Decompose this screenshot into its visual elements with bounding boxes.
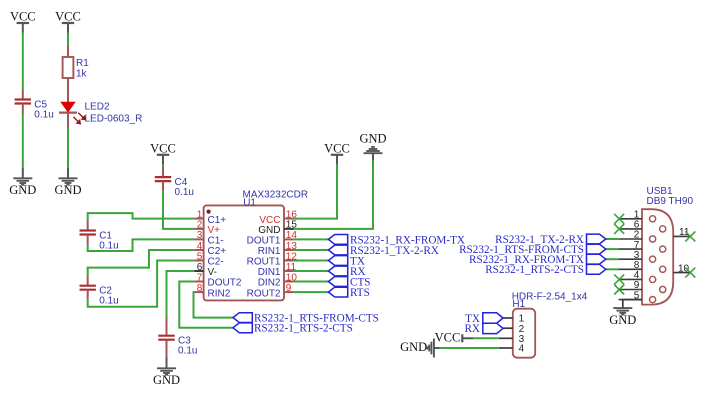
- svg-text:9: 9: [286, 283, 292, 294]
- op-amp U1 MAX3232CDR body: [204, 205, 284, 300]
- wire U1 pin 10 to flag (net CTS): [294, 281, 329, 283]
- svg-text:VCC: VCC: [150, 141, 176, 155]
- svg-text:GND: GND: [54, 183, 81, 197]
- capacitor C5 lead top: [22, 90, 24, 100]
- ground GND (U1 pin15): [359, 132, 386, 161]
- net flag RTS (U1 pin 9): [328, 287, 347, 297]
- LED LED2 arrows: [74, 113, 86, 124]
- svg-text:DOUT1: DOUT1: [247, 236, 281, 247]
- wire LED2 to GND: [67, 127, 69, 167]
- H1 pin 4 stub: [499, 347, 513, 349]
- wire U1 pin 12 to flag (net TX): [294, 260, 329, 262]
- USB1 pin 7 stub: [619, 248, 642, 250]
- USB1 pin 6 stub: [619, 228, 642, 230]
- svg-text:VCC: VCC: [435, 330, 461, 344]
- svg-text:H1: H1: [512, 299, 525, 310]
- wire U1 pin8 to flag (net RS232-1_RTS-FROM-CTS): [194, 292, 234, 318]
- svg-text:GND: GND: [400, 340, 427, 354]
- net flag TX (U1 pin 12): [328, 256, 347, 266]
- svg-text:RIN1: RIN1: [258, 246, 281, 257]
- net flag CTS (U1 pin 10): [328, 277, 347, 287]
- svg-text:ROUT2: ROUT2: [247, 288, 281, 299]
- U1 pin 8 stub: [194, 291, 203, 293]
- svg-text:GND: GND: [609, 313, 636, 327]
- wire U1 pin 9 to flag (net RTS): [294, 291, 329, 293]
- no-connect X USB1 pin 1: [614, 214, 624, 224]
- U1 pin-1 indicator dot: [207, 210, 211, 214]
- net flag RS232-1_RX-FROM-TX (USB1): [587, 254, 606, 264]
- svg-text:LED2: LED2: [85, 102, 110, 113]
- svg-text:V-: V-: [208, 267, 217, 278]
- wire U1 pin7 to flag (net RS232-1_RTS-2-CTS): [179, 282, 233, 328]
- capacitor C1 lead top: [87, 221, 89, 231]
- svg-text:4: 4: [519, 344, 525, 355]
- USB1 pin 2 stub: [619, 238, 642, 240]
- svg-text:DB9 TH90: DB9 TH90: [647, 196, 694, 207]
- svg-text:8: 8: [197, 283, 203, 294]
- USB1 pin 3 stub: [619, 258, 642, 260]
- svg-text:C1-: C1-: [208, 236, 224, 247]
- wire flag to USB1 (net RS232-1_RTS-2-CTS): [606, 268, 619, 270]
- wire C4 to U1 pin 2 (net V+): [163, 191, 194, 229]
- svg-text:RIN2: RIN2: [208, 288, 231, 299]
- capacitor C4: [155, 177, 171, 181]
- no-connect X USB1 pin 11: [685, 231, 695, 241]
- svg-text:R1: R1: [76, 58, 89, 69]
- wire U1 pin3 to C1 bottom (net C1-): [88, 239, 195, 251]
- U1 pin 12 stub: [284, 260, 294, 262]
- svg-text:RTS: RTS: [350, 287, 370, 299]
- U1 pin 16 stub: [284, 218, 294, 220]
- no-connect X USB1 pin 9: [614, 285, 624, 295]
- H1 pin 3 stub: [499, 337, 513, 339]
- wire U1 pin15 to GND: [294, 161, 373, 229]
- capacitor C5 lead bottom: [22, 104, 24, 114]
- USB1 pin 9 stub: [619, 289, 642, 291]
- net flag RX (U1 pin 11): [328, 266, 347, 276]
- ground GND (USB1 pin5): [613, 307, 632, 309]
- capacitor C4 lead top: [162, 167, 164, 177]
- svg-text:RS232-1_RTS-2-CTS: RS232-1_RTS-2-CTS: [254, 323, 353, 335]
- wire flag to USB1 (net RS232-1_RX-FROM-TX): [606, 258, 619, 260]
- net flag RS232-1_RTS-2-CTS (USB1): [587, 264, 606, 274]
- U1 pin 3 stub: [194, 238, 203, 240]
- resistor R1 lead top: [67, 46, 69, 57]
- svg-text:0.1u: 0.1u: [34, 110, 53, 121]
- svg-text:VCC: VCC: [324, 141, 350, 155]
- ground GND (LED branch): [54, 167, 81, 197]
- net flag RS232-1_TX-2-RX (USB1): [587, 234, 606, 244]
- svg-text:GND: GND: [153, 373, 180, 387]
- USB1 pin 5 stub: [619, 299, 642, 301]
- wire U1 pin6 to C3 top (net V-): [167, 271, 195, 319]
- svg-text:DIN1: DIN1: [258, 267, 281, 278]
- svg-text:ROUT1: ROUT1: [247, 257, 281, 268]
- U1 pin 4 stub: [194, 249, 203, 251]
- svg-text:C2-: C2-: [208, 257, 224, 268]
- USB1 pin 4 hole: [650, 276, 656, 282]
- net flag RS232-1_RX-FROM-TX (U1 pin 14): [328, 235, 347, 245]
- wire flag to USB1 (net RS232-1_RTS-FROM-CTS): [606, 248, 619, 250]
- capacitor C2 lead top: [87, 276, 89, 286]
- USB1 pin 7 hole: [660, 246, 666, 252]
- no-connect X USB1 pin 10: [685, 268, 695, 278]
- U1 pin 10 stub: [284, 281, 294, 283]
- USB1 pin 1 hole: [650, 216, 656, 222]
- no-connect X USB1 pin 4: [614, 274, 624, 284]
- svg-text:6: 6: [197, 262, 203, 273]
- capacitor C4 lead bottom: [162, 181, 164, 191]
- power flag VCC (net VCC, U1 pin16): [324, 141, 350, 164]
- net flag TX (H1 pin1): [483, 313, 503, 323]
- wire U1 pin 13 to flag (net RS232-1_TX-2-RX): [294, 249, 329, 251]
- USB1 pin 6 hole: [660, 226, 666, 232]
- svg-text:2: 2: [197, 220, 203, 231]
- connector H1 HDR-F-2.54_1x4 body: [513, 309, 535, 358]
- svg-text:LED-0603_R: LED-0603_R: [85, 114, 143, 125]
- net flag RS232-1_TX-2-RX (U1 pin 13): [328, 245, 347, 255]
- U1 pin 7 stub: [194, 281, 203, 283]
- wire VCC to R1: [67, 33, 69, 47]
- wire C5 to GND: [22, 114, 24, 168]
- net flag RX (H1 pin2): [483, 323, 503, 333]
- U1 pin 6 stub: [194, 270, 203, 272]
- U1 pin 9 stub: [284, 291, 294, 293]
- resistor R1: [63, 57, 74, 78]
- capacitor C1: [80, 231, 96, 235]
- U1 pin 15 stub: [284, 228, 294, 230]
- LED LED2: [61, 102, 75, 112]
- svg-text:GND: GND: [359, 132, 386, 146]
- svg-text:VCC: VCC: [10, 10, 36, 24]
- wire VCC to C5: [22, 33, 24, 90]
- svg-text:11: 11: [679, 227, 690, 238]
- USB1 pin 8 stub: [619, 268, 642, 270]
- USB1 pin 5 hole: [650, 297, 656, 303]
- svg-text:0.1u: 0.1u: [175, 187, 194, 198]
- net flag RS232-1_RTS-FROM-CTS (USB1): [587, 244, 606, 254]
- capacitor C3 lead bottom: [166, 340, 168, 359]
- svg-text:V+: V+: [208, 225, 221, 236]
- USB1 pin 9 hole: [660, 286, 666, 292]
- svg-text:5: 5: [197, 251, 203, 262]
- svg-text:0.1u: 0.1u: [99, 296, 118, 307]
- power flag VCC (net VCC, R1 branch): [55, 10, 81, 33]
- U1 pin 5 stub: [194, 260, 203, 262]
- USB1 pin 8 hole: [660, 266, 666, 272]
- svg-text:0.1u: 0.1u: [99, 241, 118, 252]
- net flag RS232-1_RTS-2-CTS: [233, 323, 252, 333]
- svg-text:0.1u: 0.1u: [178, 346, 197, 357]
- wire U1 pin4 to C2 top (net C2+): [88, 250, 195, 276]
- capacitor C3: [158, 336, 174, 340]
- H1 pin 1 stub: [503, 317, 513, 319]
- svg-text:7: 7: [197, 272, 203, 283]
- capacitor C2 lead bottom: [87, 290, 89, 300]
- svg-text:3: 3: [197, 230, 203, 241]
- U1 pin 13 stub: [284, 249, 294, 251]
- svg-text:U1: U1: [243, 197, 256, 208]
- USB1 pin 4 stub: [619, 278, 642, 280]
- net flag RS232-1_RTS-FROM-CTS: [233, 313, 252, 323]
- svg-text:C2+: C2+: [208, 246, 227, 257]
- ground GND (C5 branch): [9, 167, 36, 197]
- no-connect X USB1 pin 6: [614, 224, 624, 234]
- wire GND to H1 pin4: [440, 347, 499, 349]
- svg-text:4: 4: [197, 241, 203, 252]
- H1 pin 2 stub: [503, 327, 513, 329]
- wire U1 pin5 to C2 bottom (net C2-): [88, 261, 195, 307]
- svg-text:GND: GND: [258, 225, 280, 236]
- power flag VCC (net VCC, C4/V+ branch): [150, 141, 176, 164]
- svg-text:1k: 1k: [76, 69, 88, 80]
- USB1 pin 11 stub: [673, 235, 689, 237]
- svg-text:DOUT2: DOUT2: [208, 278, 242, 289]
- ground GND (H1 pin4, horizontal): [433, 339, 435, 358]
- connector USB1 DB9 TH90 body: [642, 209, 673, 304]
- U1 pin 14 stub: [284, 238, 294, 240]
- power flag VCC (net VCC, C5 branch): [10, 10, 36, 33]
- wire U1 pin 11 to flag (net RX): [294, 270, 329, 272]
- wire VCC to H1 pin3: [473, 337, 499, 339]
- wire U1 pin16 to VCC: [294, 164, 337, 219]
- U1 pin 11 stub: [284, 270, 294, 272]
- svg-text:RS232-1_RTS-2-CTS: RS232-1_RTS-2-CTS: [485, 264, 584, 276]
- USB1 pin 2 hole: [650, 236, 656, 242]
- wire VCC to C4: [162, 164, 164, 167]
- ground GND (C3 branch): [153, 357, 180, 387]
- capacitor C3 lead top: [166, 317, 168, 336]
- svg-text:GND: GND: [9, 183, 36, 197]
- capacitor C5: [15, 100, 31, 104]
- capacitor C2: [80, 286, 96, 290]
- svg-text:RX: RX: [464, 323, 480, 335]
- capacitor C1 lead bottom: [87, 235, 89, 245]
- U1 pin 2 stub: [194, 228, 203, 230]
- wire U1 pin1 to C1 top (net C1+): [88, 213, 195, 220]
- U1 pin 1 stub: [194, 218, 203, 220]
- svg-text:10: 10: [678, 263, 690, 274]
- wire U1 pin 14 to flag (net RS232-1_RX-FROM-TX): [294, 238, 329, 240]
- USB1 pin 3 hole: [650, 256, 656, 262]
- svg-text:VCC: VCC: [55, 10, 81, 24]
- wire USB1 pin5 to GND: [623, 300, 642, 308]
- svg-text:DIN2: DIN2: [258, 278, 281, 289]
- power flag VCC (H1 pin3, horizontal): [461, 334, 463, 342]
- resistor R1 lead bottom: [67, 78, 69, 102]
- LED2 lead bottom: [67, 113, 69, 127]
- USB1 pin 10 stub: [673, 272, 689, 274]
- USB1 pin 1 stub: [619, 218, 642, 220]
- wire flag to USB1 (net RS232-1_TX-2-RX): [606, 238, 619, 240]
